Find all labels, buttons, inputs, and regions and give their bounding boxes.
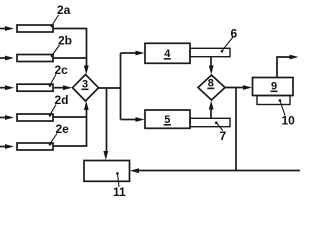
svg-text:2b: 2b — [58, 34, 72, 48]
svg-text:2c: 2c — [55, 63, 69, 77]
svg-text:2d: 2d — [55, 93, 69, 107]
svg-text:11: 11 — [113, 185, 126, 199]
svg-text:7: 7 — [220, 129, 227, 143]
svg-text:6: 6 — [231, 27, 238, 41]
svg-text:10: 10 — [282, 114, 296, 128]
svg-text:2e: 2e — [56, 122, 70, 136]
svg-text:2a: 2a — [57, 3, 71, 17]
